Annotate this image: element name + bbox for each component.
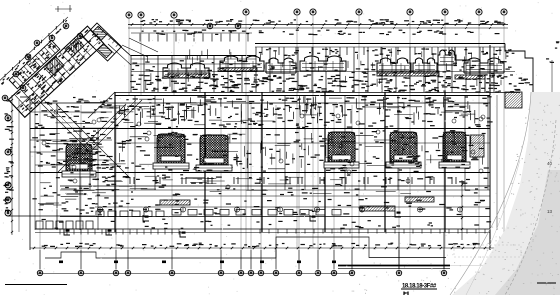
lower grid stubs xyxy=(399,232,444,269)
wing bubbles xyxy=(2,23,83,101)
main walls vertical xyxy=(30,45,497,250)
thick ground line xyxy=(338,265,450,267)
site curves xyxy=(450,92,556,295)
entrance hatch xyxy=(505,92,522,108)
corner marks xyxy=(55,5,72,12)
left lower block xyxy=(20,97,98,230)
svg-text:13: 13 xyxy=(547,209,553,214)
section L-marks xyxy=(64,211,401,237)
diagonal wing xyxy=(0,9,106,117)
courtyard diamond xyxy=(38,100,142,190)
bottom dim line xyxy=(30,243,525,250)
stair cores xyxy=(62,132,470,177)
right lower dims xyxy=(461,180,463,240)
terrace steps upper xyxy=(8,216,446,258)
wall texture xyxy=(120,96,475,125)
balconies xyxy=(163,50,504,78)
lower hatched slabs xyxy=(160,197,434,211)
top grid bubbles xyxy=(126,9,507,29)
annex top lines xyxy=(115,44,533,93)
north arrow xyxy=(471,273,489,295)
building bottom edge xyxy=(35,207,490,233)
bottom-left line xyxy=(5,284,67,286)
wing bend xyxy=(83,23,121,61)
main walls horizontal xyxy=(30,96,490,197)
hatched slabs xyxy=(168,68,485,79)
title xyxy=(401,284,437,295)
roof valley xyxy=(122,38,158,57)
bottom bubbles xyxy=(37,250,446,276)
left dims xyxy=(3,95,19,235)
left bubbles xyxy=(5,115,11,216)
annex walls xyxy=(131,47,494,92)
right end steps xyxy=(455,47,552,95)
grid verticals xyxy=(40,16,504,270)
wing connection xyxy=(88,28,131,118)
corner wash xyxy=(452,92,560,295)
right-end stair block xyxy=(470,135,484,157)
speckle xyxy=(352,103,560,295)
annotations mid xyxy=(406,118,412,119)
right small labels xyxy=(547,161,553,214)
top dimension lines xyxy=(128,19,508,35)
